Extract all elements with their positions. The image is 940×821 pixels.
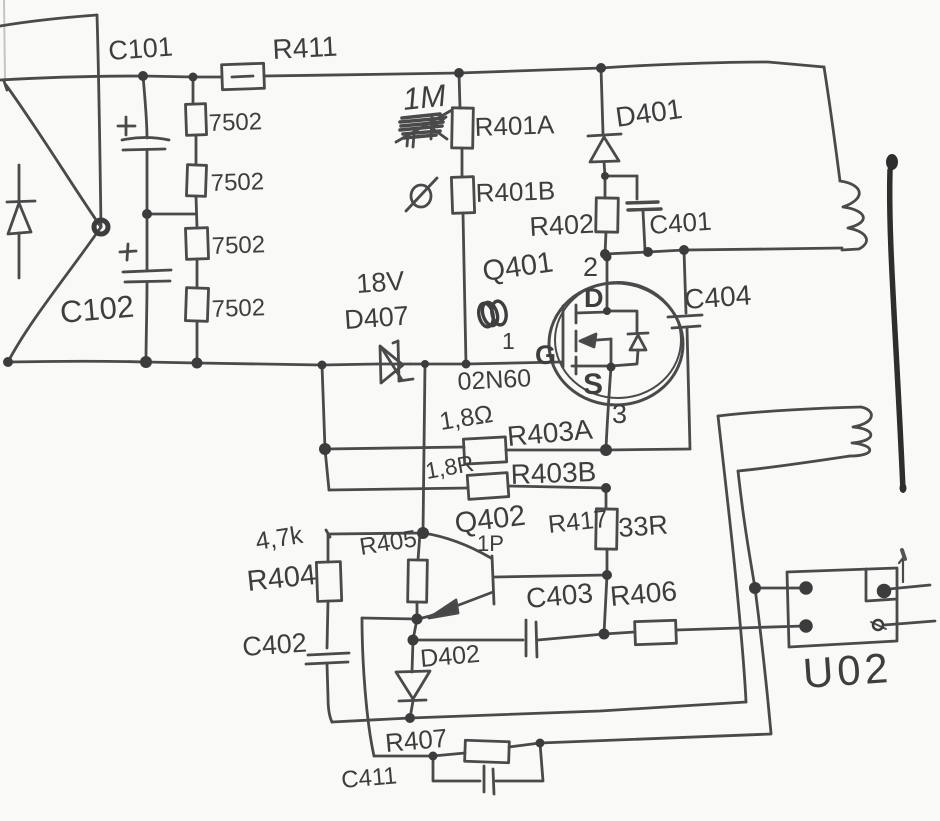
svg-text:1: 1 (502, 328, 515, 354)
svg-text:D407: D407 (343, 301, 409, 335)
svg-text:7502: 7502 (211, 231, 265, 260)
svg-text:R401B: R401B (475, 175, 555, 208)
svg-text:7502: 7502 (211, 294, 265, 323)
svg-text:R401A: R401A (474, 109, 555, 142)
svg-text:R411: R411 (272, 31, 338, 65)
svg-text:R406: R406 (609, 575, 678, 612)
svg-text:D: D (584, 283, 604, 313)
svg-text:U02: U02 (801, 644, 893, 697)
svg-text:18V: 18V (355, 266, 405, 299)
svg-text:C401: C401 (648, 206, 712, 240)
svg-text:C403: C403 (525, 577, 594, 614)
svg-text:1P: 1P (477, 531, 504, 556)
svg-text:C402: C402 (241, 628, 307, 662)
svg-text:R407: R407 (384, 723, 449, 758)
svg-text:G: G (535, 340, 556, 370)
svg-text:33R: 33R (617, 510, 669, 543)
svg-text:C101: C101 (107, 32, 173, 66)
svg-text:02N60: 02N60 (457, 364, 532, 396)
svg-text:2: 2 (583, 252, 598, 282)
svg-text:3: 3 (612, 399, 627, 429)
svg-text:C411: C411 (340, 762, 398, 794)
svg-text:7502: 7502 (208, 108, 262, 137)
svg-text:1M: 1M (401, 78, 448, 117)
svg-text:7502: 7502 (210, 168, 264, 197)
svg-text:R402: R402 (529, 209, 595, 242)
svg-text:R403B: R403B (510, 456, 597, 490)
svg-text:C404: C404 (683, 279, 752, 315)
svg-text:C102: C102 (59, 289, 136, 330)
svg-text:D402: D402 (419, 640, 481, 673)
svg-text:S: S (583, 368, 603, 401)
